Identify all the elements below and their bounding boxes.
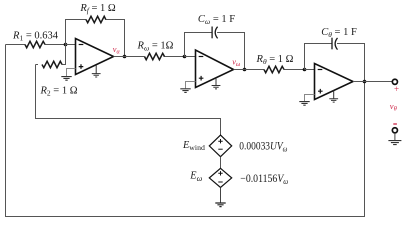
op-amp U1 xyxy=(76,39,114,75)
dependent source E_wind xyxy=(209,135,231,157)
wire U2 + input to ground xyxy=(186,82,196,89)
svg-text:+: + xyxy=(394,84,399,94)
wire E_omega to ground xyxy=(220,188,222,203)
ground (U1 power pin) xyxy=(92,65,101,77)
capacitor C_omega xyxy=(212,27,218,39)
wire terminal to ground xyxy=(394,133,396,140)
value 0.00033UV_omega xyxy=(239,141,287,154)
terminal - output circle xyxy=(392,128,397,133)
wire node A down to R2 xyxy=(36,45,66,65)
svg-text:Rω = 1Ω: Rω = 1Ω xyxy=(137,40,174,52)
wire C_omega feedback loop xyxy=(185,33,245,70)
ground (U3 power pin) xyxy=(329,91,338,103)
wire R2 to E_wind top xyxy=(36,65,221,136)
wire Rf feedback loop xyxy=(66,20,125,57)
ground (U3 + input) xyxy=(299,102,309,106)
wire U1 output to R_omega xyxy=(114,56,185,58)
dependent source E_omega xyxy=(209,168,231,187)
wire node A to U1 inverting input xyxy=(66,44,76,46)
ground (U2 + input) xyxy=(180,89,190,93)
svg-text:−0.01156Vω: −0.01156Vω xyxy=(240,174,288,187)
resistor R_theta xyxy=(264,66,284,72)
resistor Rf xyxy=(86,16,106,22)
ground (output port) xyxy=(388,141,401,145)
svg-text:R2 = 1 Ω: R2 = 1 Ω xyxy=(39,85,77,97)
capacitor C_theta xyxy=(332,38,338,50)
svg-text:Cω = 1 F: Cω = 1 F xyxy=(198,14,235,26)
node U2 inverting input dot xyxy=(183,55,187,59)
svg-text:0.00033UVω: 0.00033UVω xyxy=(239,141,287,154)
value -0.01156V_omega xyxy=(240,174,288,187)
node v_omega output dot xyxy=(243,68,247,72)
label minus (red) xyxy=(393,123,397,125)
wire U3 output to terminal xyxy=(353,81,392,83)
svg-text:R1 = 0.634: R1 = 0.634 xyxy=(12,31,59,43)
op-amp U3 xyxy=(315,64,354,100)
ground (source stack) xyxy=(215,203,225,207)
resistor R1 xyxy=(6,44,66,46)
svg-text:Rf = 1 Ω: Rf = 1 Ω xyxy=(79,3,116,15)
wire U1 + input to ground xyxy=(67,69,76,77)
resistor R2 xyxy=(42,61,62,67)
terminal + output circle xyxy=(392,79,397,84)
node B junction dot xyxy=(303,68,307,72)
svg-text:Cθ = 1 F: Cθ = 1 F xyxy=(321,27,357,39)
svg-text:Rθ = 1 Ω: Rθ = 1 Ω xyxy=(256,54,294,66)
ground (U1 + input) xyxy=(61,77,71,81)
wire C_theta feedback loop xyxy=(305,44,365,82)
node A junction dot xyxy=(64,43,68,47)
wire between sources xyxy=(220,157,222,169)
wire U3 + input to ground xyxy=(305,95,315,102)
node v_theta output dot xyxy=(363,80,367,84)
wire feedback loop from v_theta output: right vertical, bottom, left vertical xyxy=(6,45,365,217)
resistor R_omega xyxy=(145,53,165,59)
node v_alpha output dot xyxy=(123,55,127,59)
ground (U2 power pin) xyxy=(212,78,221,89)
wire U2 output to R_theta xyxy=(234,69,305,71)
wire to U3 xyxy=(305,69,315,71)
wire to U2 xyxy=(185,56,196,58)
op-amp U2 xyxy=(196,50,234,88)
